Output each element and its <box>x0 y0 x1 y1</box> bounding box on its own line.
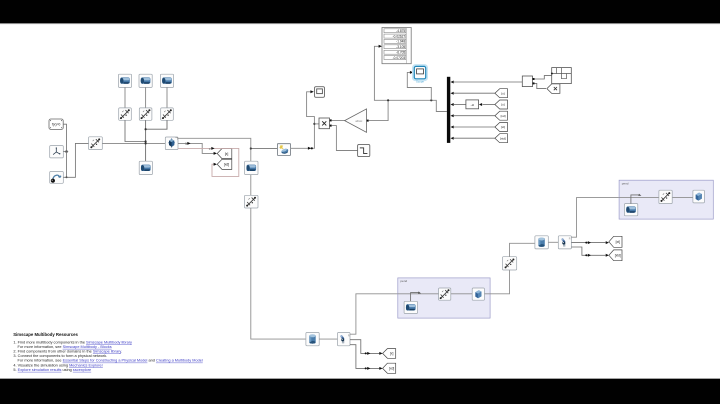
junction T3/T2 <box>145 128 147 130</box>
revolute joint block J1 <box>338 333 351 346</box>
svg-text:[xd]: [xd] <box>389 367 394 371</box>
arrowhead into goto x <box>214 152 217 155</box>
junction gain branch <box>387 99 389 101</box>
mux bar <box>447 77 450 143</box>
scope2 block <box>315 87 325 98</box>
wire branch up to scope1 <box>407 72 431 100</box>
goto tag xt <box>609 236 622 247</box>
svg-text:[xt]: [xt] <box>616 240 620 244</box>
pend2 subsystem area box <box>619 180 713 219</box>
junction bus/T2 <box>145 142 147 144</box>
arrowhead into goto xt <box>606 241 609 244</box>
mechanism configuration block <box>50 172 64 184</box>
unary minus block <box>466 100 479 109</box>
wire product output up to scope2 <box>307 92 315 124</box>
wire gain output to product <box>332 120 345 122</box>
wire solver config to bus <box>63 124 66 151</box>
wire T7 up to solid C2 <box>510 243 535 256</box>
scope1 block selected <box>413 65 427 83</box>
svg-text:For more information, see Sims: For more information, see Simscape Multi… <box>18 345 112 349</box>
wire T2 down through junctions to solid S4 <box>145 120 147 161</box>
goto tag x lower <box>383 349 396 359</box>
from tag A <box>495 89 508 98</box>
svg-text:[xd]: [xd] <box>501 114 506 118</box>
transform block T3 <box>161 108 174 120</box>
wire step to product lower input <box>332 126 358 151</box>
wire J1 q output to goto x2 <box>350 340 381 354</box>
from tag C <box>495 111 508 120</box>
svg-text:5. Explore simulation results: 5. Explore simulation results using ssce… <box>13 368 91 372</box>
mid arrow on J1 q wire <box>365 352 371 355</box>
wire cube output q to goto x <box>178 143 216 153</box>
transform block T8 in pend2 <box>659 190 672 203</box>
wire J2 frame port up to pend2 subsystem <box>571 198 659 238</box>
wire gain input from junction <box>369 100 388 120</box>
long wire T6 down to lower pendulum chain <box>251 208 306 339</box>
multiply goto tag <box>547 84 560 94</box>
svg-text:pend: pend <box>400 279 407 283</box>
goto tag xd (cart velocity) <box>217 159 232 169</box>
solid block A in pend1 <box>404 301 417 313</box>
svg-text:-1.948: -1.948 <box>396 40 405 44</box>
wire J1 frame port up to pend1 subsystem <box>350 294 439 334</box>
wire T3 down to junction <box>146 120 167 129</box>
arrowhead on converter output <box>308 147 311 150</box>
svg-text:[xd]: [xd] <box>224 163 230 167</box>
solid block S1 <box>118 74 131 87</box>
solid block S2 <box>139 74 152 87</box>
goto tag xd lower <box>383 363 396 373</box>
mid arrow on J2 q wire <box>585 241 591 244</box>
label v arrow on velocity line <box>209 147 215 151</box>
wire mux input 6 <box>453 137 495 139</box>
revolute joint block J2 <box>558 236 571 249</box>
solid cylinder block C1 <box>306 333 319 346</box>
wire S1 to T1 <box>124 87 126 108</box>
prismatic joint cube block <box>165 137 178 150</box>
svg-text:For more information, see Esse: For more information, see Essential Step… <box>18 359 203 363</box>
wire through pend1 <box>398 270 510 294</box>
from tag B <box>495 100 508 109</box>
solid block S4 <box>139 161 152 174</box>
simulink-ps converter block <box>277 144 290 156</box>
svg-text:[x]: [x] <box>390 352 393 356</box>
svg-text:-6.705: -6.705 <box>396 51 405 55</box>
svg-text:-0.07203: -0.07203 <box>393 56 406 60</box>
gain input port nub <box>367 120 369 122</box>
mux input arrowheads <box>451 81 454 140</box>
sensor converter block B1 <box>522 76 532 87</box>
svg-text:[x]: [x] <box>501 103 504 107</box>
transform block T1 <box>119 108 132 120</box>
product block <box>319 118 330 129</box>
top letterbox bar <box>0 0 720 23</box>
wire mechanism config to vertical riser <box>63 143 88 177</box>
junction product output <box>313 123 315 125</box>
wire T1 down to bus <box>125 120 146 141</box>
junction T1/T2 <box>145 140 147 142</box>
svg-text:pend: pend <box>622 181 629 185</box>
svg-text:[x]: [x] <box>501 91 504 95</box>
wire S2 to T2 <box>145 87 147 108</box>
wire mux input 1 from sensor converter <box>453 81 522 83</box>
svg-text:c: c <box>209 147 211 151</box>
display block <box>382 28 411 64</box>
rigid transform block (base) <box>89 137 103 150</box>
junction world frame bus <box>65 151 67 153</box>
svg-text:aF/wc: aF/wc <box>355 119 363 123</box>
wire C2 to revolute joint J2 <box>548 241 558 243</box>
brick solid block E in pend2 <box>693 190 705 203</box>
arrowhead into goto x2 <box>379 352 382 355</box>
arrowhead into -u block <box>479 103 482 106</box>
mid arrow on J1 w wire <box>365 367 371 370</box>
wire J1 w output to goto xd2 <box>350 345 381 369</box>
svg-text:1: 1 <box>185 142 187 146</box>
wire base transform to joint bus <box>102 142 165 144</box>
transform block T7 <box>503 257 517 270</box>
wire from tag to -u block <box>483 104 495 106</box>
arrowhead into goto xtd <box>606 254 609 257</box>
junction scope branch <box>430 99 432 101</box>
wire cube velocity pink line <box>178 148 239 176</box>
step block <box>358 144 370 156</box>
arrowhead into display <box>379 45 382 48</box>
svg-text:[xtd]: [xtd] <box>615 254 621 258</box>
solid block S5 <box>245 161 258 174</box>
wire C1 to revolute joint J1 <box>319 338 337 340</box>
product right physical ports <box>330 119 332 121</box>
svg-text:R: R <box>569 238 571 241</box>
svg-text:R: R <box>348 334 350 337</box>
solid block S3 <box>160 74 173 87</box>
world frame block <box>50 146 64 158</box>
bottom letterbox bar <box>0 379 720 404</box>
mux output trunk wire <box>374 46 447 111</box>
from tag D <box>495 123 508 132</box>
svg-text:[xtd]: [xtd] <box>500 136 506 140</box>
hook wire solid D to line <box>631 194 642 204</box>
svg-text:f(x)=0: f(x)=0 <box>52 123 61 127</box>
brick solid block C in pend1 <box>472 288 484 300</box>
svg-text:3. Connect the components to: 3. Connect the components to form a phys… <box>13 354 107 358</box>
wire world frame to bus <box>63 151 68 153</box>
solver configuration block f(x)=0 <box>49 119 63 129</box>
solid block D in pend2 <box>624 204 637 216</box>
wire mux input 2 <box>453 92 495 94</box>
label 1 arrow on cube output <box>185 142 191 146</box>
solid cylinder block C2 <box>535 236 548 249</box>
junction dot after converter arrow <box>311 147 313 149</box>
svg-text:-u: -u <box>471 103 474 107</box>
svg-text:-3.105: -3.105 <box>396 45 405 49</box>
wire S3 to T3 <box>166 87 168 108</box>
wire S5 to T6 lower chain <box>250 175 252 196</box>
wire product left port <box>314 123 319 125</box>
gain triangle (flipped) <box>345 109 367 132</box>
arrowhead into goto xd <box>214 163 217 166</box>
svg-text:1. Find more multibody compon: 1. Find more multibody components in the… <box>13 340 132 344</box>
transform block T2 <box>139 108 152 120</box>
junction on lower chain <box>250 147 252 149</box>
svg-text:[xt]: [xt] <box>501 125 505 129</box>
wire junction to S-PS converter <box>251 148 278 150</box>
wire bus vertical <box>66 152 68 178</box>
arrowhead into goto xd2 <box>379 367 382 370</box>
junction mechanism bus <box>66 176 68 178</box>
pend1 subsystem area box <box>398 278 490 318</box>
wire J2 q output to goto xt <box>571 242 605 244</box>
wire J2 w output to goto xtd <box>571 247 605 255</box>
B1 physical ports <box>533 78 535 80</box>
arrowhead into scope2 <box>310 90 313 93</box>
wire cube badge top line to lower chain <box>178 138 251 161</box>
goto tag x (cart position) <box>217 149 232 159</box>
transform block T6 <box>245 195 259 208</box>
arrowhead into scope1 <box>410 71 413 74</box>
svg-text:[x]: [x] <box>225 152 229 156</box>
wire B1 top port to sensor block <box>535 76 552 79</box>
svg-text:-0.02627: -0.02627 <box>393 35 406 39</box>
mid arrow on J2 w wire <box>585 254 591 257</box>
from tag E <box>495 134 508 143</box>
wire mux input 3 from -u block <box>453 104 466 106</box>
svg-text:4. Visualize the simulation u: 4. Visualize the simulation using Mechan… <box>13 363 103 367</box>
transform block B in pend1 <box>439 288 451 300</box>
wire converter to product junction <box>291 124 315 148</box>
hook wire solid A to line <box>411 291 421 301</box>
svg-text:2. Find components from other: 2. Find components from other domains in… <box>13 350 122 354</box>
svg-text:Simscape Multibody Resources: Simscape Multibody Resources <box>13 332 78 337</box>
wire mux input 4 <box>453 115 495 117</box>
annotation list <box>13 340 203 372</box>
svg-text:-4.875: -4.875 <box>396 29 405 33</box>
goto tag xtd <box>609 250 622 261</box>
svg-text:Scope: Scope <box>416 79 424 83</box>
wire mux input 5 <box>453 126 495 128</box>
wire B1 bottom port to multiply tag <box>535 83 547 88</box>
transform sensor block <box>551 68 571 84</box>
wire through pend2 <box>619 197 693 199</box>
